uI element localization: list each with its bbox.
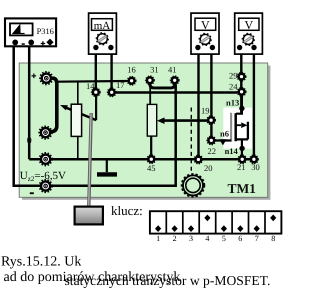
channel bar	[234, 113, 237, 141]
wire: common bottom bus (0V rail)	[29, 158, 254, 161]
svg-text:5: 5	[222, 234, 226, 243]
DIP numbers	[156, 234, 275, 243]
substrate arrow	[237, 124, 241, 126]
svg-text:21: 21	[237, 162, 246, 172]
wire: terminal 14 down to wiper junction	[95, 92, 97, 120]
transistor white background	[223, 108, 252, 149]
resistor R1	[71, 82, 81, 160]
wire: gate lead from terminal 22 with arrow	[215, 139, 231, 145]
source/substrate loop	[236, 122, 248, 140]
knob (adjustment wheel)	[182, 174, 205, 197]
node n13	[239, 106, 244, 111]
terminal 22	[207, 136, 215, 144]
meter V1	[191, 13, 219, 54]
svg-text:4: 4	[205, 234, 209, 243]
potentiometer P1 wiper arrow	[60, 105, 96, 120]
klucz handle	[75, 207, 103, 225]
svg-text:n6: n6	[220, 129, 229, 139]
svg-text:30: 30	[251, 162, 260, 172]
svg-text:41: 41	[168, 64, 177, 74]
svg-text:45: 45	[147, 163, 156, 173]
svg-text:n14: n14	[225, 146, 239, 156]
svg-text:14: 14	[86, 81, 95, 91]
svg-text:17: 17	[116, 80, 125, 90]
source lead to terminal 21	[241, 139, 243, 159]
terminal 14	[92, 88, 100, 96]
svg-text:6: 6	[238, 234, 242, 243]
svg-text:19: 19	[201, 105, 210, 115]
svg-text:n13: n13	[226, 97, 239, 107]
svg-text:Rys.15.12. Uk: Rys.15.12. Uk	[1, 255, 81, 270]
svg-text:0: 0	[27, 136, 32, 147]
transistor Q1 p-MOSFET	[231, 96, 248, 159]
wire: P316 right lead down to common bus	[28, 44, 31, 159]
label +	[32, 74, 37, 79]
ground	[97, 159, 117, 174]
terminal 21	[238, 155, 246, 163]
svg-text:mA: mA	[94, 20, 111, 32]
svg-text:statycznych tranzystor w p-MO: statycznych tranzystor w p-MOSFET.	[65, 273, 271, 288]
svg-text:22: 22	[208, 146, 217, 156]
terminal 29	[237, 72, 245, 80]
board TM1 shadow	[22, 66, 270, 200]
terminal 45	[147, 155, 155, 163]
wire: V1 left lead to terminal 20	[197, 47, 199, 159]
potentiometer P1 track (thick bar from + to 0)	[51, 78, 57, 132]
meter P316	[5, 18, 56, 46]
jumper strap between terminals 31 and 41	[150, 82, 175, 88]
svg-text:20: 20	[204, 163, 213, 173]
wire: P316 left lead to "-" terminal, bottom return bus to terminal 41	[14, 44, 176, 186]
terminal 41	[171, 76, 179, 84]
svg-text:TM1: TM1	[227, 181, 256, 196]
wire: V2 right lead to terminal 30	[253, 47, 255, 159]
svg-text:klucz:: klucz:	[111, 203, 143, 218]
wire: bus terminal 17 to terminal 24	[116, 91, 238, 93]
potentiometer P2 wiper arrow to terminal 19	[157, 117, 207, 124]
terminal +	[40, 72, 52, 84]
terminal 24	[237, 88, 245, 96]
svg-text:24: 24	[229, 82, 238, 92]
svg-text:2: 2	[173, 234, 177, 243]
board TM1 (green)	[19, 63, 268, 197]
potentiometer P2 body	[147, 84, 156, 159]
DIP switch klucz	[150, 211, 282, 233]
terminal 31	[146, 76, 154, 84]
meter mA	[89, 13, 117, 54]
dashed mechanical link	[190, 108, 192, 173]
svg-text:1: 1	[156, 234, 160, 243]
terminal 16	[127, 77, 135, 85]
terminal mid	[39, 153, 51, 165]
terminal -	[39, 180, 51, 192]
svg-text:V: V	[244, 18, 253, 32]
svg-text:3: 3	[189, 234, 193, 243]
terminal 0	[39, 126, 51, 138]
svg-text:V: V	[201, 18, 210, 32]
svg-text:Uz2=-6,5V: Uz2=-6,5V	[20, 170, 66, 183]
svg-text:16: 16	[127, 64, 136, 74]
terminal 17	[108, 88, 116, 96]
wire: mA meter right lead to terminal 17	[110, 47, 112, 92]
svg-text:7: 7	[255, 234, 259, 243]
wire: mA meter left lead to terminal 14	[95, 47, 97, 92]
drain connection from n13	[236, 96, 242, 114]
svg-text:8: 8	[271, 234, 275, 243]
wire: V2 left lead through terminals 29,24 to node n13	[240, 47, 242, 114]
terminal 19	[207, 116, 215, 124]
svg-text:31: 31	[150, 64, 159, 74]
svg-text:29: 29	[229, 70, 238, 80]
label minus	[30, 192, 34, 194]
node n14	[239, 146, 244, 151]
svg-text:P316: P316	[37, 27, 54, 36]
terminal 20	[194, 155, 202, 163]
terminal 30	[250, 155, 258, 163]
wire: top bus from potentiometer top to terminal 16	[57, 80, 128, 83]
wire: V1 right lead to terminal 19 and on to terminal 22	[210, 47, 212, 140]
gate bar (gray)	[230, 113, 232, 142]
klucz gray control rod	[89, 113, 92, 207]
meter V2	[235, 13, 263, 54]
